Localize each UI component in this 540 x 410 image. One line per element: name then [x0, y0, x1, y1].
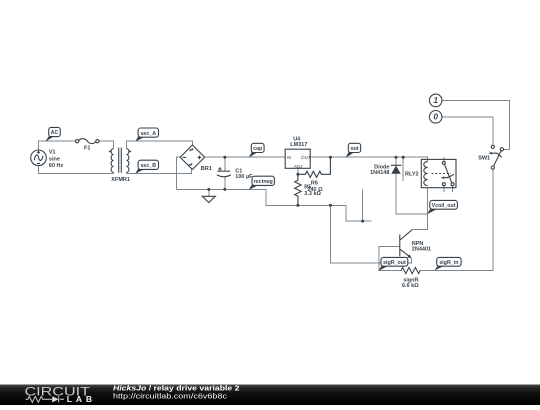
- svg-text:sec_B: sec_B: [140, 163, 156, 169]
- svg-text:Vcoil_out: Vcoil_out: [432, 203, 456, 209]
- wire signR right lead to SW1 bottom (node sigR_in): [420, 169, 493, 270]
- node flag sigR_out: [379, 257, 408, 271]
- junction node at cross stub: [361, 220, 364, 223]
- capacitor C1: [217, 167, 231, 176]
- wire flag 0 to SW1 left terminal: [442, 117, 493, 146]
- wire transformer secondary bottom to bridge bottom (node sec_B): [127, 169, 192, 173]
- wire stub branch from negative rail: [330, 205, 371, 221]
- svg-text:sigR_out: sigR_out: [383, 260, 406, 266]
- wire capacitor C1 top lead: [224, 157, 226, 171]
- svg-text:SW1: SW1: [478, 156, 490, 162]
- wire relay common contact stub: [443, 157, 445, 161]
- svg-text:sine: sine: [49, 156, 60, 162]
- svg-text:0: 0: [433, 113, 438, 122]
- svg-text:ADJ: ADJ: [293, 164, 303, 169]
- svg-text:http://circuitlab.com/c6v6b8c: http://circuitlab.com/c6v6b8c: [113, 392, 228, 401]
- svg-text:LAB: LAB: [67, 394, 92, 404]
- switch SW1: [489, 145, 504, 169]
- wire bridge minus to negative rail: [177, 157, 181, 189]
- svg-text:IN: IN: [287, 155, 292, 160]
- node flag sec_A: [135, 128, 158, 142]
- svg-text:2N4401: 2N4401: [412, 246, 431, 252]
- op-amp U4 LM317 regulator box: [285, 149, 312, 169]
- svg-text:100 µF: 100 µF: [235, 174, 253, 180]
- svg-text:rectneg: rectneg: [254, 179, 273, 185]
- wire diode top lead from out rail: [395, 157, 397, 165]
- svg-text:LM317: LM317: [290, 142, 307, 148]
- junction node at negative rail branch: [329, 204, 332, 207]
- junction node at R5 bottom: [296, 204, 299, 207]
- wire fuse F1 to transformer primary: [99, 141, 114, 148]
- wire negative rail (node rectneg): [177, 189, 331, 205]
- wire ground stub: [208, 189, 210, 196]
- wire dangling vertical stub at cross junction: [362, 189, 364, 221]
- wire relay coil bottom to collector (node Vcoil_out): [412, 188, 428, 231]
- wire V1 top to fuse F1: [39, 141, 76, 150]
- node flag rectneg: [249, 176, 275, 190]
- diode D1 1N4148: [391, 165, 402, 174]
- transistor Q1 NPN 2N4401: [400, 230, 412, 258]
- node flag Vcoil_out: [427, 200, 457, 214]
- wire flag 1 to SW1 right terminal: [442, 100, 509, 149]
- bridge rectifier BR1: [180, 145, 204, 170]
- svg-text:XFMR1: XFMR1: [111, 177, 130, 183]
- wire relay NC contact stub: [443, 186, 445, 193]
- node flag sec_B: [135, 160, 158, 174]
- wire signR left lead: [379, 270, 401, 272]
- wire relay NO contact stub: [452, 186, 454, 193]
- svg-text:RLY2: RLY2: [405, 172, 419, 178]
- node flag 1: [429, 94, 442, 107]
- junction node at diode: [395, 156, 398, 159]
- FOOTER BANNER: [0, 384, 540, 405]
- junction node at dangling stub: [402, 156, 405, 159]
- node flag 0: [429, 111, 442, 124]
- svg-text:sec_A: sec_A: [140, 131, 156, 137]
- wire diode bottom lead to Vcoil_out node: [396, 174, 428, 214]
- wire LM317 OUT rail (node out): [310, 157, 427, 161]
- wire bridge plus to LM317 IN (node cap): [204, 156, 285, 158]
- wire transistor base to signR left (node sigR_out): [379, 247, 400, 271]
- wire capacitor C1 bottom lead: [224, 177, 226, 190]
- node flag cap: [249, 143, 264, 157]
- svg-text:AC: AC: [51, 130, 59, 136]
- svg-text:1N4148: 1N4148: [370, 170, 389, 176]
- svg-text:60 Hz: 60 Hz: [49, 163, 64, 169]
- fuse F1: [76, 139, 100, 144]
- junction node at C1 top: [223, 156, 226, 159]
- svg-text:6.6 kΩ: 6.6 kΩ: [402, 283, 419, 289]
- resistor signR: [401, 267, 420, 273]
- svg-text:3.3 kΩ: 3.3 kΩ: [304, 191, 321, 197]
- wire emitter return to negative rail: [330, 205, 411, 263]
- svg-text:cap: cap: [253, 146, 263, 152]
- svg-text:V1: V1: [49, 150, 56, 156]
- svg-text:R5: R5: [304, 185, 311, 191]
- svg-text:F1: F1: [84, 146, 90, 152]
- junction node at C1 bottom: [223, 188, 226, 191]
- svg-text:R6: R6: [311, 180, 318, 186]
- wire LM317 ADJ stub: [297, 168, 299, 174]
- transformer XFMR1: [109, 148, 131, 173]
- node flag AC: [45, 127, 60, 141]
- wire dangling stub at out rail: [402, 157, 404, 181]
- svg-text:out: out: [350, 146, 358, 152]
- svg-text:OUT: OUT: [301, 155, 312, 160]
- voltage source V1: [31, 150, 47, 166]
- svg-text:1: 1: [433, 96, 438, 105]
- resistor R6: [298, 157, 331, 177]
- svg-text:sigR_in: sigR_in: [439, 260, 458, 266]
- junction node at ADJ: [296, 173, 299, 176]
- wire transformer secondary top to bridge top (node sec_A): [127, 141, 193, 148]
- relay RLY2: [421, 159, 456, 187]
- junction node at ground: [207, 188, 210, 191]
- node flag sigR_in: [435, 257, 462, 270]
- junction node at R6 top: [329, 156, 332, 159]
- wire V1 bottom to transformer primary bottom: [39, 166, 114, 174]
- node flag out: [346, 143, 361, 158]
- svg-text:BR1: BR1: [201, 166, 212, 172]
- resistor R5: [295, 174, 301, 205]
- ground: [202, 196, 215, 202]
